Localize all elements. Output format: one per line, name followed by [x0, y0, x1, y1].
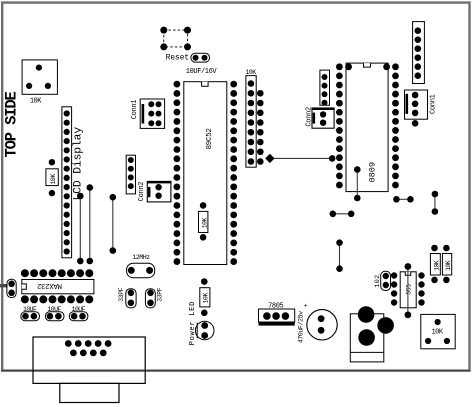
IC U1 89C52 (40-pin DIP) — [174, 81, 238, 265]
svg-text:10K: 10K — [203, 293, 210, 304]
svg-text:LCD Display: LCD Display — [72, 127, 84, 201]
svg-text:TOP SIDE: TOP SIDE — [2, 91, 20, 157]
svg-text:102: 102 — [374, 274, 382, 287]
svg-text:Power LED: Power LED — [189, 301, 197, 345]
connector LCD Display (16-pin) — [62, 107, 84, 258]
connector Conn1 (right, 3-pin + via) — [405, 90, 438, 127]
svg-text:12MHz: 12MHz — [132, 254, 150, 261]
wire (vertical via pair center-right) — [336, 239, 343, 272]
connector (top-right, 6-pin) — [413, 22, 425, 84]
svg-text:10K: 10K — [245, 69, 256, 76]
voltage regulator U4 7805 — [259, 302, 295, 325]
svg-text:0809: 0809 — [367, 162, 377, 183]
svg-text:33PF: 33PF — [157, 287, 164, 302]
svg-text:10K: 10K — [201, 217, 208, 228]
resistor network RN1 10K (SIP-9) — [245, 69, 256, 167]
IC U3 555 (8-pin DIP) — [391, 272, 425, 308]
potentiometer RV1 10K (top-left) — [22, 60, 57, 106]
resistor R 10K (pair right) — [442, 245, 452, 284]
capacitor C 33PF (right) — [145, 287, 163, 308]
svg-text:MAX232: MAX232 — [37, 281, 62, 289]
connector J (2-pin, left edge) — [0, 279, 16, 297]
capacitor C 102 — [374, 271, 391, 290]
svg-text:10K: 10K — [431, 329, 443, 337]
pushbutton switch Reset — [160, 27, 191, 63]
LED D1 Power LED — [189, 301, 214, 345]
wire (vertical through 555) — [405, 263, 412, 318]
wire (horizontal via pair below 0809 right) — [393, 196, 414, 203]
svg-text:10K: 10K — [30, 98, 42, 106]
connector J (2-pad box near Conn2 right) — [312, 108, 334, 128]
svg-text:10K: 10K — [50, 174, 57, 185]
svg-text:33PF: 33PF — [118, 287, 125, 302]
wire (horizontal via pair below 0809 left) — [330, 211, 355, 218]
connector Conn1 (left, 2x3) — [131, 99, 165, 128]
svg-text:Conn2: Conn2 — [138, 182, 146, 202]
potentiometer RV2 10K (bottom-right) — [421, 314, 455, 348]
wire (LCD to MAX232 A) — [77, 193, 84, 265]
transistor Q1 (TO-220, 3 large pads) — [350, 306, 394, 362]
capacitor C 10UF #2 — [45, 306, 64, 321]
board label TOP SIDE — [2, 91, 20, 157]
svg-text:Conn1: Conn1 — [430, 94, 438, 114]
via column (8 vias right of RN1) — [257, 90, 264, 165]
capacitor 10UF/16V (near Reset) — [186, 53, 218, 76]
wire (LCD area C) — [110, 194, 117, 254]
svg-text:Conn1: Conn1 — [131, 100, 139, 120]
svg-text:+: + — [304, 303, 308, 310]
wire (LCD to MAX232 B) — [87, 184, 94, 264]
svg-text:10UF/16V: 10UF/16V — [186, 68, 218, 76]
svg-text:10K: 10K — [445, 260, 452, 271]
resistor R 10K (inside 89C52 footprint) — [199, 202, 209, 241]
crystal X1 12MHz — [127, 254, 155, 278]
resistor R 10K (pair left) — [430, 245, 440, 284]
svg-text:10K: 10K — [433, 260, 440, 271]
IC U2 0809 (28-pin DIP) — [336, 63, 399, 192]
capacitor C 10UF #3 — [69, 306, 88, 321]
IC U5 MAX232 (16-pin DIP) — [21, 269, 94, 303]
svg-text:89C52: 89C52 — [206, 128, 214, 150]
capacitor C 10UF #1 — [21, 306, 40, 321]
capacitor C 470uF/25v (electrolytic) — [298, 303, 338, 344]
connector Conn2 (right, 4-pin) — [305, 70, 329, 127]
connector J (2-pad box near Conn2 left) — [147, 181, 171, 202]
wire (via inside 0809 to via below) — [354, 166, 361, 201]
svg-text:555: 555 — [406, 284, 413, 295]
resistor R 10K (for Power LED) — [200, 278, 210, 316]
svg-text:470uF/25v: 470uF/25v — [298, 311, 305, 343]
connector J DB9 (serial, bottom-left) — [33, 337, 145, 403]
wire (vertical via pair right) — [432, 191, 439, 215]
wire (horizontal, SIP row to 0809) — [265, 154, 335, 163]
capacitor C 33PF (left) — [118, 287, 136, 308]
connector Conn2 (left, 4-pin) — [126, 155, 146, 201]
svg-text:Reset: Reset — [166, 53, 189, 62]
resistor R 10K (left of LCD) — [46, 159, 58, 196]
